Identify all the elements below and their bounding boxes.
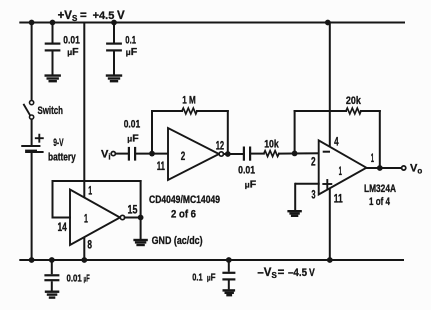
wire 20k feedback top left — [295, 110, 346, 112]
wire 20k feedback right vertical — [379, 111, 381, 168]
junction bottom rail / C5 — [49, 257, 55, 263]
capacitor C2 0.1uF top lead — [113, 23, 115, 43]
wire U1b output pin 12 — [224, 153, 244, 155]
wire op-amp pin 4 supply — [329, 23, 331, 147]
wire -Vs bottom rail — [20, 259, 403, 261]
inverter U1a output bubble pin 15 — [120, 215, 124, 219]
svg-text:μF: μF — [126, 46, 138, 58]
junction op-amp output node — [377, 165, 383, 171]
junction bottom rail / op-amp pin 11 — [327, 257, 333, 263]
op-amp U2 triangle — [319, 140, 367, 194]
svg-text:LM324A: LM324A — [364, 183, 396, 195]
svg-text:1: 1 — [371, 153, 375, 165]
wire C6 to ground — [228, 281, 230, 290]
svg-text:V: V — [309, 267, 315, 279]
terminal Vo output circle — [402, 166, 406, 170]
wire op-amp output pin 1 — [366, 167, 401, 169]
wire U1a output pin 15 — [125, 217, 141, 219]
svg-text:2: 2 — [181, 151, 186, 163]
svg-text:1 M: 1 M — [182, 95, 196, 107]
wire U1b feedback top right — [197, 110, 228, 112]
junction top rail / C1 — [50, 20, 56, 26]
svg-text:2 of 6: 2 of 6 — [171, 209, 196, 221]
svg-text:4: 4 — [334, 137, 339, 149]
ground below C6 — [223, 290, 236, 295]
svg-text:battery: battery — [48, 151, 76, 163]
svg-text:μF: μF — [207, 271, 216, 283]
resistor R1 1M zigzag — [182, 108, 197, 114]
wire R2 to node B — [279, 152, 319, 154]
op-amp minus marker — [324, 151, 329, 153]
wire U1a feedback top — [53, 180, 141, 182]
svg-text:0.1: 0.1 — [192, 271, 202, 283]
ground below C1 — [46, 76, 60, 82]
capacitor C4 0.01uF plates — [244, 148, 250, 160]
junction U1b output node — [225, 151, 231, 157]
wire Vi to C3 — [116, 153, 128, 155]
svg-text:Vi: Vi — [101, 149, 111, 162]
junction U1a output node GND — [138, 215, 144, 221]
battery BT1 9V plates — [22, 146, 39, 151]
svg-text:1 of 4: 1 of 4 — [369, 196, 391, 208]
battery minus marker — [38, 151, 43, 153]
svg-text:20k: 20k — [346, 95, 362, 107]
wire output node to ground — [140, 218, 142, 240]
svg-text:9-V: 9-V — [53, 137, 64, 149]
wire U1a feedback left vertical — [52, 181, 54, 218]
capacitor C2 plates — [107, 44, 121, 51]
svg-text:0.01: 0.01 — [67, 272, 82, 284]
svg-text:–4.5: –4.5 — [288, 267, 307, 279]
svg-text:1: 1 — [84, 214, 88, 226]
wire U1a supply VCC/VSS line — [83, 23, 85, 261]
wire pin 3 to ground — [294, 184, 296, 211]
junction bottom rail / C6 — [226, 257, 232, 263]
svg-text:μF: μF — [67, 46, 79, 58]
svg-text:11: 11 — [334, 194, 343, 206]
battery plus marker — [36, 135, 43, 142]
svg-text:μF: μF — [245, 179, 257, 191]
wire U1b feedback left vertical — [151, 111, 153, 154]
junction bottom rail / U1a supply — [81, 257, 87, 263]
capacitor C5 0.01uF bottom lead — [51, 260, 53, 274]
svg-text:0.1: 0.1 — [125, 35, 136, 47]
svg-text:Switch: Switch — [38, 105, 64, 117]
resistor R3 20k zigzag — [346, 108, 361, 114]
wire +Vs top rail — [20, 22, 404, 24]
ground GND (ac/dc) — [135, 240, 147, 245]
svg-text:1: 1 — [339, 166, 343, 178]
wire C5 to ground — [51, 281, 53, 291]
wire 20k feedback left vertical — [294, 111, 296, 153]
svg-text:0.01: 0.01 — [63, 35, 80, 47]
svg-text:12: 12 — [216, 140, 224, 152]
junction node A input of U1b — [149, 151, 155, 157]
wire switch branch from top rail — [31, 23, 33, 101]
op-amp plus marker — [323, 180, 331, 188]
svg-text:0.01: 0.01 — [124, 119, 141, 131]
wire U1a input pin 14 — [53, 217, 71, 219]
wire C3 to node A — [136, 153, 168, 155]
svg-text:8: 8 — [87, 240, 92, 252]
svg-text:14: 14 — [58, 222, 68, 234]
junction node B op-amp pin 2 — [292, 151, 298, 157]
switch S1 — [24, 101, 34, 120]
capacitor C3 0.01uF plates — [129, 148, 135, 160]
svg-text:μF: μF — [127, 133, 139, 145]
wire 20k feedback top right — [361, 110, 380, 112]
capacitor C6 plates — [222, 273, 235, 280]
capacitor C5 plates — [44, 275, 59, 280]
svg-text:0.01: 0.01 — [238, 164, 255, 176]
wire C1 to ground — [52, 52, 54, 75]
svg-text:Vo: Vo — [410, 162, 422, 175]
junction bottom rail / battery — [29, 257, 35, 263]
ground below pin 3 — [289, 211, 301, 216]
svg-text:CD4049/MC14049: CD4049/MC14049 — [149, 194, 220, 206]
svg-text:11: 11 — [157, 161, 166, 173]
svg-text:μF: μF — [84, 272, 91, 284]
wire C2 to ground — [113, 52, 115, 75]
inverter U1a triangle — [70, 190, 120, 246]
svg-text:3: 3 — [311, 189, 315, 201]
svg-text:–VS=: –VS= — [257, 267, 284, 280]
svg-text:2: 2 — [311, 156, 316, 168]
ground below C2 — [107, 76, 121, 82]
wire op-amp pin 11 supply — [329, 189, 331, 260]
junction top rail / C2 — [111, 20, 117, 26]
resistor R2 10k zigzag — [264, 151, 279, 157]
svg-text:GND (ac/dc): GND (ac/dc) — [152, 235, 203, 247]
svg-text:10k: 10k — [264, 138, 279, 150]
wire U1b feedback top left — [152, 110, 182, 112]
svg-text:1: 1 — [88, 186, 92, 198]
wire battery to bottom rail — [31, 153, 33, 260]
capacitor C1 0.01uF top lead — [52, 23, 54, 43]
svg-text:15: 15 — [128, 205, 138, 217]
capacitor C1 plates — [46, 44, 60, 51]
wire op-amp pin 3 horizontal — [296, 183, 319, 185]
terminal Vi input circle — [111, 152, 115, 156]
wire C4 to R2 — [251, 153, 264, 155]
junction top rail / op-amp pin 4 — [325, 20, 331, 26]
wire U1a feedback right vertical — [140, 181, 142, 218]
wire switch to battery — [31, 119, 33, 145]
inverter U1b output bubble pin 12 — [219, 152, 223, 156]
capacitor C6 0.1uF bottom lead — [228, 260, 230, 272]
inverter U1b triangle — [168, 128, 219, 180]
wire U1b feedback right vertical — [227, 111, 229, 154]
ground below C5 — [45, 292, 60, 298]
junction top rail / switch branch — [29, 20, 35, 26]
